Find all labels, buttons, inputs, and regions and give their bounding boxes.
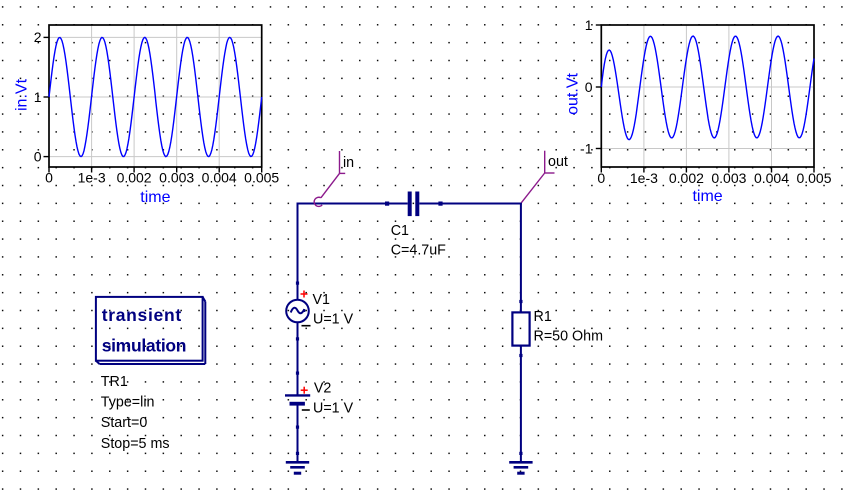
svg-text:1e-3: 1e-3 xyxy=(630,170,658,186)
node label in xyxy=(314,151,354,206)
svg-text:out: out xyxy=(548,154,568,170)
svg-text:0: 0 xyxy=(597,170,605,186)
wire top-right horizontal xyxy=(419,203,522,205)
wire top-left horizontal xyxy=(298,203,408,205)
svg-text:R=50 Ohm: R=50 Ohm xyxy=(534,329,604,345)
ticks left plot x-axis xyxy=(44,37,262,172)
ground left xyxy=(286,462,309,473)
node label out xyxy=(521,151,568,203)
y axis labels left plot xyxy=(34,29,42,164)
svg-text:0.005: 0.005 xyxy=(244,170,279,186)
svg-text:U=1 V: U=1 V xyxy=(313,401,354,417)
ac source V1 xyxy=(286,300,309,323)
svg-text:U=1 V: U=1 V xyxy=(313,312,354,328)
svg-text:time: time xyxy=(140,189,170,206)
svg-text:R1: R1 xyxy=(534,309,552,325)
svg-text:Type=lin: Type=lin xyxy=(101,395,155,411)
svg-text:V1: V1 xyxy=(313,292,331,308)
plot in.Vt (left diagram) xyxy=(14,25,280,206)
x axis labels right plot xyxy=(597,170,831,186)
pin nub V1 top xyxy=(296,282,299,285)
svg-text:time: time xyxy=(692,188,722,205)
svg-text:0.004: 0.004 xyxy=(202,170,237,186)
transient simulation box TR1 xyxy=(96,297,205,364)
capacitor C1 xyxy=(408,192,420,217)
svg-text:transient: transient xyxy=(102,305,182,325)
wire V2 to ground left xyxy=(297,405,299,462)
svg-text:0.003: 0.003 xyxy=(711,170,746,186)
gridlines left plot xyxy=(49,25,262,167)
dc source V2 xyxy=(285,395,310,405)
svg-text:1: 1 xyxy=(34,89,42,105)
ticks right plot xyxy=(596,25,814,173)
svg-text:-1: -1 xyxy=(580,140,593,156)
plus sign V2 xyxy=(301,387,308,394)
svg-text:Start=0: Start=0 xyxy=(101,415,148,431)
wire V1 to V2 xyxy=(297,322,299,395)
svg-text:in: in xyxy=(343,155,354,171)
svg-text:0.005: 0.005 xyxy=(796,170,831,186)
svg-text:C=4.7uF: C=4.7uF xyxy=(391,243,446,259)
svg-text:1e-3: 1e-3 xyxy=(78,170,106,186)
x axis labels left plot xyxy=(45,170,279,186)
svg-text:out.Vt: out.Vt xyxy=(565,73,582,115)
svg-text:Stop=5 ms: Stop=5 ms xyxy=(101,436,170,452)
svg-text:in.Vt: in.Vt xyxy=(14,78,31,111)
wire left vertical (in node to V1) xyxy=(297,203,299,301)
wire R1 to ground right xyxy=(520,346,522,462)
svg-text:V2: V2 xyxy=(314,380,332,396)
svg-text:0.003: 0.003 xyxy=(159,170,194,186)
pin nub ground left xyxy=(296,452,299,455)
pin nub V1 bottom xyxy=(296,337,299,340)
pin nub V2 bottom xyxy=(296,426,299,429)
svg-text:TR1: TR1 xyxy=(101,374,128,390)
svg-text:0: 0 xyxy=(34,148,42,164)
ground right xyxy=(509,462,532,473)
pin nub R1 top xyxy=(519,300,522,303)
svg-text:0: 0 xyxy=(585,79,593,95)
curve out.Vt xyxy=(601,36,814,140)
svg-text:1: 1 xyxy=(585,17,593,33)
y axis labels right plot xyxy=(580,17,593,157)
svg-text:0.002: 0.002 xyxy=(669,170,704,186)
minus sign V1 xyxy=(302,325,311,327)
svg-text:simulation: simulation xyxy=(102,335,187,355)
pin nub V2 top xyxy=(296,372,299,375)
svg-text:0.002: 0.002 xyxy=(117,170,152,186)
curve in.Vt xyxy=(49,37,262,156)
svg-text:0.004: 0.004 xyxy=(754,170,789,186)
resistor R1 xyxy=(512,312,529,345)
frame right plot xyxy=(601,25,814,167)
wire right vertical (out node to R1) xyxy=(520,203,522,313)
plot out.Vt (right diagram) xyxy=(565,17,832,205)
pin nub ground right xyxy=(519,452,522,455)
minus sign V2 xyxy=(302,409,310,411)
junction pin left of C1 xyxy=(385,202,389,206)
svg-text:0: 0 xyxy=(45,170,53,186)
junction pin right of C1 xyxy=(438,202,442,206)
frame left plot xyxy=(49,25,262,167)
svg-text:2: 2 xyxy=(34,29,42,45)
pin nub R1 bottom xyxy=(519,354,522,357)
svg-text:C1: C1 xyxy=(391,223,409,239)
plus sign V1 xyxy=(301,291,308,298)
gridlines right plot xyxy=(601,25,814,167)
